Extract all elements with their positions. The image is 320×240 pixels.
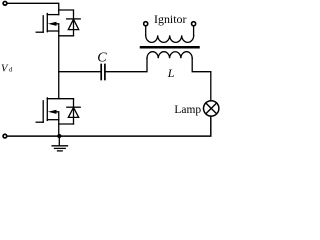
transformer T1 (ignitor) — [141, 22, 199, 59]
terminal T+ (top-left input) — [3, 1, 7, 5]
Q1 body arrow lead — [56, 24, 59, 31]
Q1 gate bar — [42, 16, 44, 32]
lamp LP1 — [204, 101, 219, 116]
T1 core — [141, 46, 199, 49]
ground bar 3 — [58, 150, 63, 152]
ground bar 1 — [52, 145, 67, 147]
wire mid rail to capacitor — [59, 71, 101, 73]
ground stub — [58, 136, 60, 146]
D2 triangle — [68, 108, 78, 118]
diode D1 (upper body diode) — [59, 19, 80, 36]
wire top rail — [7, 3, 58, 14]
svg-text:C: C — [97, 51, 107, 66]
lamp circle — [204, 101, 219, 116]
wire capacitor to ignitor secondary — [106, 58, 147, 71]
ground — [52, 136, 67, 151]
Q2 channel bar — [46, 98, 48, 121]
Q1 drain lead — [47, 14, 58, 16]
diode D2 (lower body diode) — [59, 99, 80, 124]
Q1 source lead — [47, 30, 58, 32]
T1 primary lead left — [145, 26, 147, 35]
wire Q2 drain jog to diode D2 — [47, 98, 73, 100]
D2 anode lead — [59, 123, 74, 125]
lamp X — [206, 103, 217, 114]
C left plate — [100, 65, 102, 80]
svg-text:d: d — [9, 67, 13, 74]
wire secondary right to lamp — [192, 58, 211, 100]
svg-text:L: L — [167, 66, 175, 80]
D1 triangle — [68, 19, 78, 29]
transistor Q2 (lower MOSFET) — [36, 98, 59, 122]
svg-text:V: V — [1, 64, 9, 75]
T1 primary terminal right — [192, 22, 196, 26]
D1 cathode bar — [67, 18, 81, 20]
wire Q2 source to bottom rail — [58, 120, 60, 136]
Q2 body arrow lead — [56, 112, 59, 120]
Q2 gate stub — [36, 121, 43, 123]
junction dot — [57, 134, 61, 138]
D1 anode lead — [59, 35, 74, 37]
svg-text:Lamp: Lamp — [174, 102, 201, 116]
D2 lead from drain — [73, 99, 75, 124]
D2 cathode bar — [67, 106, 80, 108]
wire jog to diode D1 — [59, 10, 74, 36]
T1 secondary winding L — [147, 52, 192, 59]
Q2 gate bar — [42, 101, 44, 122]
transistor Q1 (upper MOSFET) — [36, 14, 59, 33]
wire center bus (Q1 source to Q2 drain) — [58, 31, 60, 99]
capacitor C — [101, 65, 105, 80]
Q1 arrowhead — [48, 22, 57, 26]
T1 primary winding — [146, 35, 194, 42]
T1 primary terminal left — [144, 22, 148, 26]
C right plate — [104, 65, 106, 80]
Q2 arrowhead — [48, 110, 57, 114]
svg-text:Ignitor: Ignitor — [154, 14, 187, 26]
Q2 source lead — [47, 119, 58, 121]
Q1 gate stub — [36, 31, 43, 33]
Q1 channel bar — [46, 14, 48, 32]
terminal T- (bottom-left input) — [3, 134, 7, 138]
ground bar 2 — [55, 147, 66, 149]
T1 primary lead right — [193, 26, 195, 35]
wire lamp to bottom rail — [7, 116, 211, 136]
